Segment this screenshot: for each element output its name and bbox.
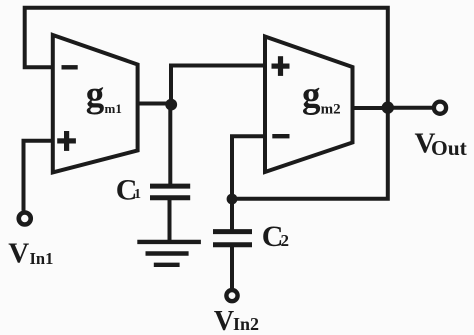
svg-text:V: V: [214, 306, 234, 335]
svg-text:m2: m2: [321, 101, 341, 117]
svg-text:V: V: [8, 238, 29, 270]
svg-text:g: g: [86, 74, 105, 115]
svg-text:In1: In1: [30, 249, 54, 268]
svg-text:Out: Out: [431, 136, 468, 160]
svg-text:g: g: [302, 75, 321, 116]
svg-text:In2: In2: [233, 314, 259, 334]
svg-text:m1: m1: [105, 101, 122, 116]
svg-text:2: 2: [281, 231, 290, 250]
svg-text:1: 1: [134, 187, 141, 202]
